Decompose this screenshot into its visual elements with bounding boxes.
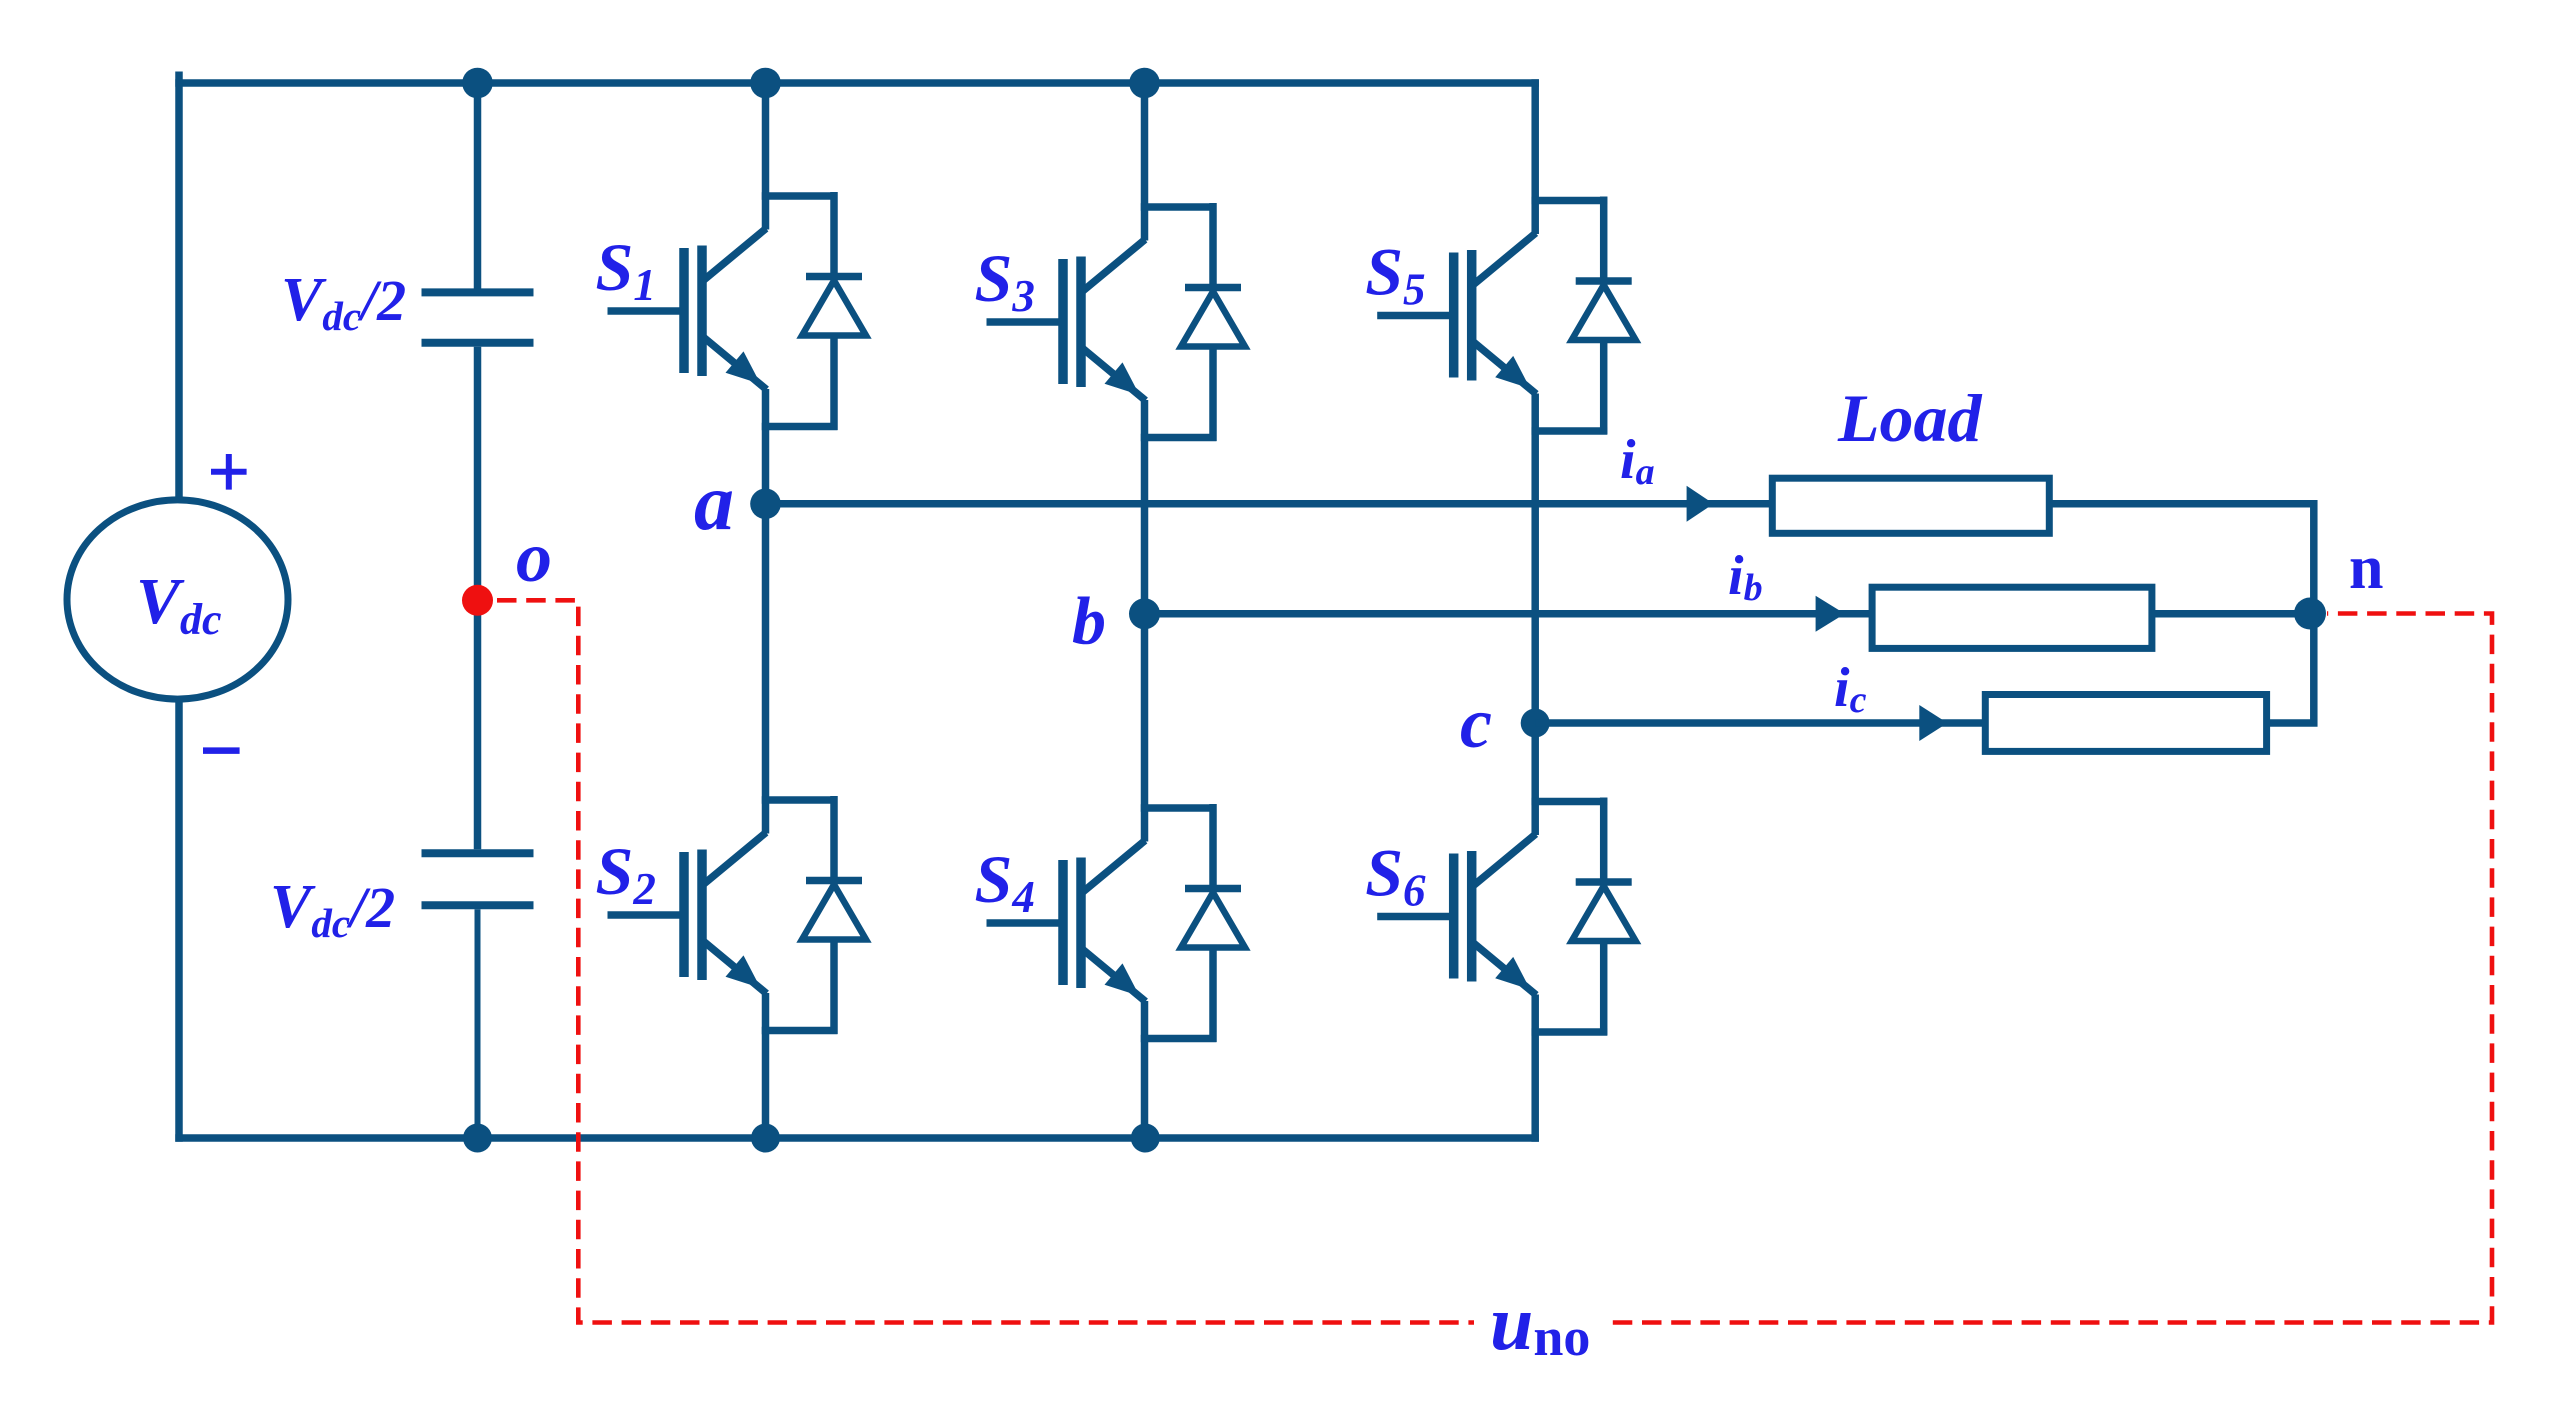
wire capacitor mid leg (C1 to node o to C2) [474, 347, 482, 849]
wire phase b to node n [2152, 610, 2310, 618]
dashed net u_no (o to label) [497, 600, 1474, 1322]
svg-text:b: b [1072, 583, 1106, 659]
transistor S1 (IGBT) [608, 196, 838, 427]
wire leg c upper (top bus corner to S5 collector) [1531, 79, 1539, 234]
svg-text:o: o [516, 517, 552, 597]
wire leg b upper (top bus to S3 collector) [1141, 83, 1149, 241]
resistor load phase c [1985, 695, 2266, 752]
wire leg b middle (S3 emitter through node b to S4 collector) [1141, 400, 1149, 842]
diode D3 (antiparallel with S3) [1181, 203, 1245, 441]
wire phase c to node n [2267, 614, 2314, 724]
label + polarity [211, 454, 247, 490]
svg-text:Load: Load [1837, 380, 1983, 456]
current arrow ib [1816, 596, 1845, 632]
capacitor C2 (Vdc/2) [422, 853, 534, 905]
wire leg a lower (S2 emitter to bottom bus) [762, 993, 770, 1138]
junction top bus / leg b [1129, 68, 1160, 99]
dashed net u_no (label to node n) [1613, 614, 2492, 1323]
label - polarity [203, 747, 240, 754]
transistor S4 (IGBT) [987, 808, 1217, 1039]
junction bottom bus / leg a [751, 1124, 780, 1153]
junction bottom bus / leg b [1131, 1124, 1160, 1153]
node b [1129, 598, 1160, 629]
current arrow ic [1919, 705, 1947, 741]
transistor S5 (IGBT) [1377, 201, 1607, 432]
diode D4 (antiparallel with S4) [1181, 804, 1245, 1042]
junction top bus / leg a [750, 68, 781, 99]
wire phase a output (node a to load) [766, 500, 1773, 508]
wire leg c lower (S6 emitter to bottom bus corner) [1531, 995, 1539, 1142]
wire leg c middle (S5 emitter through node c to S6 collector) [1531, 394, 1539, 836]
wire capacitor leg top (bus to C1) [474, 83, 482, 289]
svg-text:n: n [2349, 534, 2383, 602]
node c [1521, 709, 1550, 738]
wire phase c output (node c to load) [1535, 719, 1985, 727]
voltage source Vdc [67, 500, 288, 699]
resistor load phase a [1772, 478, 2049, 533]
diode D2 (antiparallel with S2) [802, 796, 866, 1034]
capacitor C1 (Vdc/2) [422, 292, 534, 342]
diode D1 (antiparallel with S1) [802, 192, 866, 430]
wire leg a middle (S1 emitter through node a to S2 collector) [762, 389, 770, 834]
node o (DC midpoint, red) [462, 585, 493, 616]
junction top bus / capacitor leg [462, 68, 493, 99]
transistor S6 (IGBT) [1377, 802, 1607, 1033]
node n (load neutral) [2294, 598, 2326, 630]
wire left rail lower (Vdc- to bottom bus) [175, 699, 183, 1142]
junction bottom bus / capacitor leg [463, 1124, 492, 1153]
wire bottom DC bus [175, 1134, 1539, 1142]
resistor load phase b [1872, 587, 2152, 648]
wire leg b lower (S4 emitter to bottom bus) [1141, 1001, 1149, 1138]
wire top DC bus [175, 79, 1539, 87]
current arrow ia [1687, 486, 1714, 522]
wire phase a to node n [2049, 504, 2314, 614]
wire left rail upper (Vdc+ to top bus) [175, 72, 183, 501]
transistor S3 (IGBT) [987, 207, 1217, 438]
wire leg a upper (top bus to S1 collector) [762, 83, 770, 230]
wire capacitor leg bottom (C2 to bottom bus) [475, 909, 481, 1138]
transistor S2 (IGBT) [608, 800, 838, 1031]
diode D6 (antiparallel with S6) [1572, 798, 1636, 1036]
node a [750, 489, 781, 520]
wire phase b output (node b to load) [1145, 610, 1873, 618]
svg-text:c: c [1460, 683, 1492, 763]
diode D5 (antiparallel with S5) [1572, 197, 1636, 435]
svg-text:a: a [694, 459, 734, 547]
